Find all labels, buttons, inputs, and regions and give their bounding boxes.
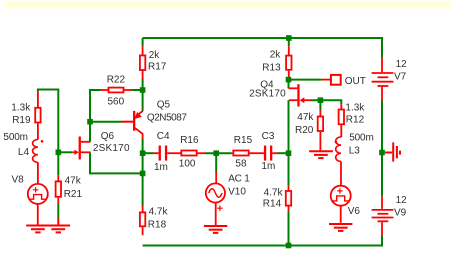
svg-text:C3: C3 [262, 131, 275, 142]
ground under V8 [26, 226, 49, 233]
svg-text:V7: V7 [394, 71, 407, 82]
AC source V10 [206, 172, 250, 226]
wire Q4 gate to R12 branch [311, 100, 341, 104]
wire node3 to V10 [215, 153, 217, 172]
svg-text:Q2N5087: Q2N5087 [147, 112, 187, 123]
wire V7 to V9 right column [381, 100, 383, 196]
wire node1 to C4 [143, 152, 154, 154]
svg-text:2k: 2k [270, 50, 282, 61]
port OUT [321, 75, 366, 87]
battery V7 [372, 58, 408, 101]
wire R17 bottom to Q5 emitter [142, 79, 144, 111]
transistor Q6 (JFET 2SK170) [72, 131, 130, 160]
svg-text:V8: V8 [12, 174, 25, 185]
svg-text:AC 1: AC 1 [228, 173, 250, 184]
svg-text:47k: 47k [65, 176, 82, 187]
svg-text:R12: R12 [346, 114, 365, 125]
resistor R20 [295, 110, 323, 150]
svg-text:500m: 500m [3, 132, 28, 143]
pulse source V6 [331, 186, 361, 223]
svg-text:R22: R22 [107, 75, 126, 86]
svg-text:R15: R15 [234, 135, 253, 146]
svg-text:1.3k: 1.3k [345, 103, 365, 114]
rotated ground at node6 [385, 142, 400, 161]
svg-text:V10: V10 [228, 187, 246, 198]
transistor Q4 (JFET 2SK170 mirrored) [249, 79, 311, 106]
wire R20 top stub [319, 100, 321, 110]
wire R21 bottom [57, 204, 59, 218]
svg-text:1.3k: 1.3k [11, 102, 31, 113]
svg-text:R19: R19 [12, 115, 31, 126]
wire node C to Q6 gate [58, 151, 72, 153]
svg-text:12: 12 [396, 195, 408, 206]
svg-text:Q5: Q5 [157, 100, 171, 111]
svg-text:C4: C4 [157, 131, 170, 142]
svg-text:R14: R14 [263, 198, 282, 209]
svg-text:R18: R18 [148, 220, 167, 231]
junction node A [140, 87, 146, 93]
junction node6 [379, 150, 385, 156]
wire R14 bottom to rail [288, 212, 290, 246]
ground under R21 [47, 217, 70, 232]
resistor R15 [231, 135, 264, 170]
svg-text:58: 58 [235, 158, 247, 169]
junction node7 [318, 97, 324, 103]
svg-text:2k: 2k [149, 50, 161, 61]
resistor R19 [11, 92, 40, 140]
junction node5 [286, 243, 292, 249]
resistor R22 [101, 75, 132, 108]
resistor R21 [56, 175, 83, 204]
svg-text:4.7k: 4.7k [264, 187, 284, 198]
svg-text:V9: V9 [394, 207, 407, 218]
wire R22 right to node A [132, 89, 143, 91]
svg-text:R13: R13 [262, 62, 281, 73]
svg-text:R16: R16 [180, 135, 199, 146]
svg-text:1m: 1m [261, 161, 275, 172]
svg-text:OUT: OUT [345, 76, 366, 87]
junction node4 [286, 150, 292, 156]
capacitor C3 [261, 131, 277, 172]
svg-text:500m: 500m [349, 132, 374, 143]
title banner [4, 1, 451, 7]
junction Q4 drain node [286, 77, 292, 83]
junction node C [56, 150, 62, 156]
junction node B [87, 119, 93, 125]
svg-text:L3: L3 [349, 146, 361, 157]
wire R22 left corner down to Q6 drain [90, 90, 101, 142]
inductor L3 [335, 132, 374, 186]
wire Q6 source loop [90, 152, 143, 173]
ground under R20 [309, 151, 333, 158]
svg-text:R21: R21 [64, 189, 83, 200]
junction node3 [213, 150, 219, 156]
inductor L4 [3, 132, 43, 184]
svg-text:2SK170: 2SK170 [93, 143, 130, 154]
junction node2 [140, 171, 146, 177]
svg-text:L4: L4 [18, 147, 30, 158]
capacitor C4 [153, 131, 181, 173]
wire left input column R19 top to R21 [38, 90, 58, 176]
wire top rail with V7 drop [143, 38, 382, 58]
wire Q4 drain node down [288, 80, 290, 89]
svg-text:12: 12 [396, 59, 408, 70]
svg-text:2SK170: 2SK170 [249, 89, 286, 100]
wire bottom rail to V9 [143, 236, 382, 246]
svg-text:R20: R20 [295, 125, 314, 136]
wire Q5 collector to R18 [142, 139, 144, 207]
junction node1 [140, 150, 146, 156]
svg-text:47k: 47k [297, 112, 314, 123]
wire R16 to R15 [205, 152, 231, 154]
svg-text:4.7k: 4.7k [149, 207, 169, 218]
pulse source V8 [12, 174, 48, 224]
resistor R13 [262, 46, 291, 78]
resistor R16 [179, 135, 205, 170]
ground under V10 [204, 226, 227, 233]
svg-text:560: 560 [108, 97, 125, 108]
ground under V6 [329, 224, 352, 231]
transistor Q5 (PNP Q2N5087) [122, 100, 187, 139]
battery V9 [372, 195, 408, 236]
svg-text:R17: R17 [148, 62, 167, 73]
junction rail R13 [286, 35, 292, 41]
resistor R17 [140, 46, 167, 79]
svg-text:Q6: Q6 [101, 131, 115, 142]
svg-text:100: 100 [179, 159, 196, 170]
wire R13 top stub [288, 38, 290, 46]
resistor R18 [140, 206, 169, 235]
wire node to OUT [289, 79, 322, 81]
wire R17 top stub [142, 38, 144, 46]
resistor R14 [263, 186, 291, 212]
svg-text:1m: 1m [154, 162, 168, 173]
resistor R12 [339, 103, 366, 138]
svg-text:V6: V6 [348, 206, 361, 217]
wire C3 to node4 [277, 152, 288, 154]
wire node4 column Q4 source to R14 [288, 100, 290, 185]
wire node B to Q5 base [90, 121, 122, 123]
